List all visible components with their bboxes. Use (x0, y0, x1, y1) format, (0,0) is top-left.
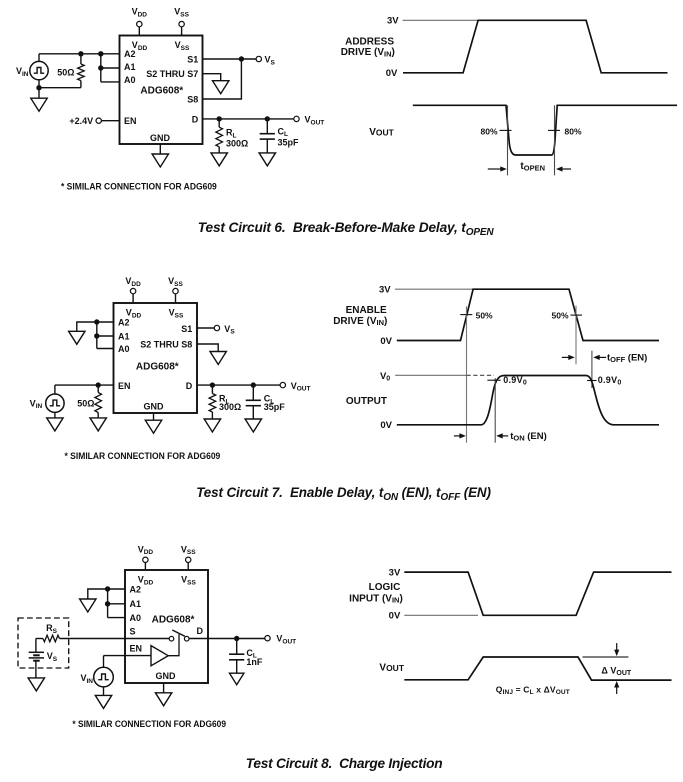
node VOUT label (waveform 8) (379, 662, 404, 673)
node junction bus-A1 (circuit 7) (94, 333, 99, 338)
node junction bus-A2 (circuit 7) (94, 319, 99, 324)
node 50% tick left (waveform 7) (460, 310, 493, 320)
wire 0V reference line (waveform 8) (404, 614, 478, 616)
resistor 50ohm label (circuit 7) (77, 398, 94, 408)
svg-text:* SIMILAR CONNECTION FOR ADG60: * SIMILAR CONNECTION FOR ADG609 (61, 181, 217, 191)
node 0V label (waveform 6) (386, 68, 398, 79)
ground GND pin (circuit 7) (145, 413, 161, 433)
VOUT terminal (circuit 7) (280, 381, 310, 393)
node caption test circuit 7 (196, 485, 491, 503)
wire VOUT waveform with notch (waveform 6) (413, 105, 677, 155)
node junction D-CL (circuit 7) (251, 382, 256, 387)
wire V0 reference line (waveform 7) (395, 374, 494, 376)
svg-text:A2: A2 (124, 49, 136, 59)
node junction bus-A1 (circuit 8) (105, 601, 110, 606)
svg-text:S1: S1 (187, 55, 198, 65)
wire VSS supply stub (circuit 6) (181, 27, 183, 36)
resistor RL label (circuit 6) (226, 128, 248, 149)
svg-text:A0: A0 (124, 75, 136, 85)
wire address bus vertical (circuit 7) (96, 322, 98, 349)
svg-text:50%: 50% (476, 310, 493, 320)
svg-text:80%: 80% (480, 127, 497, 137)
svg-text:tOPEN: tOPEN (520, 161, 545, 173)
node caption test circuit 8 (246, 756, 443, 771)
note similar connection (circuit 6) (61, 181, 217, 191)
wire VIN enable waveform (waveform 7) (397, 289, 659, 340)
wire measure line 0.9V0 left (waveform 7) (494, 378, 496, 443)
node junction D-CL (circuit 6) (265, 116, 270, 121)
svg-text:* SIMILAR CONNECTION FOR ADG60: * SIMILAR CONNECTION FOR ADG609 (65, 451, 221, 461)
svg-text:S2 THRU S8: S2 THRU S8 (140, 340, 192, 350)
svg-text:3V: 3V (389, 568, 401, 579)
svg-text:GND: GND (156, 671, 177, 681)
node 3V label (waveform 8) (389, 568, 401, 579)
VOUT terminal (circuit 6) (294, 115, 324, 127)
wire S1 to VS (circuit 6) (203, 58, 257, 60)
node junction D-RL (circuit 6) (217, 116, 222, 121)
wire 3V reference line (waveform 7) (395, 288, 473, 290)
ground GND pin (circuit 6) (152, 144, 168, 167)
wire VIN address waveform (waveform 6) (403, 20, 668, 73)
svg-text:A0: A0 (130, 613, 142, 623)
wire VDD supply stub (circuit 6) (138, 27, 140, 36)
svg-text:35pF: 35pF (264, 402, 286, 412)
svg-text:OUTPUT: OUTPUT (346, 396, 387, 407)
ground below VIN (circuit 7) (47, 412, 63, 431)
capacitor CL label (circuit 6) (278, 126, 300, 147)
node 0V label (waveform 8) (389, 611, 401, 622)
ground below VIN (circuit 8) (95, 687, 111, 709)
node 80% tick left (waveform 6) (480, 127, 511, 137)
node 80% tick right (waveform 6) (548, 127, 582, 137)
svg-text:35pF: 35pF (278, 137, 300, 147)
wire EN stub (circuit 6) (101, 120, 119, 122)
svg-text:DRIVE (VIN): DRIVE (VIN) (333, 316, 387, 327)
capacitor CL 1nF (circuit 8) (229, 639, 244, 674)
VDD terminal (circuit 8) (138, 544, 154, 562)
node QINJ formula (waveform 8) (496, 685, 570, 696)
svg-text:ADG608*: ADG608* (140, 85, 183, 96)
svg-text:3V: 3V (387, 16, 399, 27)
capacitor CL label (circuit 8) (246, 648, 263, 667)
svg-text:tOFF (EN): tOFF (EN) (607, 353, 647, 365)
wire VSS supply stub (circuit 7) (175, 294, 177, 303)
resistor RL label (circuit 7) (219, 394, 241, 412)
svg-text:50Ω: 50Ω (57, 67, 74, 77)
wire VSS supply stub (circuit 8) (187, 563, 189, 571)
node tOPEN measure arrows (waveform 6) (488, 161, 571, 173)
wire S1 stub (circuit 7) (197, 327, 214, 329)
node tOFF measure arrows (waveform 7) (562, 351, 648, 388)
svg-text:S8: S8 (187, 95, 198, 105)
wire S2-S7 stub (circuit 6) (203, 74, 221, 81)
VSS terminal (circuit 7) (168, 276, 183, 294)
battery VS (circuit 8) (29, 639, 58, 678)
svg-text:ADG608*: ADG608* (136, 362, 179, 373)
node +2.4V label (circuit 6) (69, 116, 93, 126)
svg-text:50%: 50% (551, 310, 568, 320)
svg-text:300Ω: 300Ω (226, 138, 248, 148)
node 0V label output (waveform 7) (380, 420, 392, 431)
wire A2 net with ground bend (circuit 7) (77, 322, 114, 331)
node delta VOUT arrows (waveform 8) (601, 643, 631, 694)
wire A1 pin stub (circuit 8) (108, 603, 125, 605)
ground address (circuit 8) (80, 599, 96, 612)
capacitor CL 35pF (circuit 6) (260, 119, 275, 153)
wire A2 net with ground bend (circuit 8) (88, 589, 125, 599)
VSS terminal (circuit 6) (174, 7, 189, 27)
svg-text:S2 THRU S7: S2 THRU S7 (146, 69, 198, 79)
node junction D-CL (circuit 8) (234, 636, 239, 641)
wire D output net (circuit 6) (203, 118, 294, 120)
op-amp EN driver buffer (circuit 8) (151, 646, 168, 666)
capacitor CL 35pF (circuit 7) (246, 385, 261, 419)
resistor 50ohm (circuit 6) (78, 54, 85, 81)
ground address (circuit 7) (69, 331, 85, 344)
VOUT terminal (circuit 8) (265, 634, 296, 646)
wire right measure line (waveform 6) (554, 105, 556, 175)
node tON measure arrows (waveform 7) (454, 431, 547, 443)
node ADDRESS DRIVE label (waveform 6) (341, 36, 395, 58)
node junction 50ohm top (circuit 6) (78, 51, 83, 56)
ground below RL (circuit 7) (204, 419, 220, 432)
node LOGIC INPUT label (waveform 8) (349, 582, 403, 605)
svg-text:A0: A0 (118, 344, 130, 354)
svg-text:ADDRESS: ADDRESS (345, 36, 394, 47)
node junction bus-A2 (circuit 8) (105, 586, 110, 591)
node OUTPUT label (waveform 7) (346, 396, 387, 407)
op-amp U3 ADG608 IC body (circuit 8) (125, 570, 208, 683)
node junction D-RL (circuit 7) (210, 382, 215, 387)
svg-text:D: D (192, 114, 199, 124)
wire A0 pin stub (circuit 6) (101, 81, 120, 83)
svg-text:ADG608*: ADG608* (152, 614, 195, 625)
svg-text:A1: A1 (130, 599, 142, 609)
node ENABLE DRIVE label (waveform 7) (333, 305, 387, 327)
wire EN net from VIN (circuit 8) (104, 656, 152, 668)
EN terminal (circuit 6) (96, 118, 101, 123)
source VIN pulse generator (circuit 8) (80, 667, 113, 687)
ground below VS (circuit 8) (28, 678, 44, 691)
wire VDD supply stub (circuit 7) (132, 294, 134, 303)
node caption test circuit 6 (198, 220, 495, 238)
svg-text:S1: S1 (181, 324, 192, 334)
wire A0 pin stub (circuit 7) (97, 348, 114, 350)
svg-text:Test Circuit 8. Charge Inject: Test Circuit 8. Charge Injection (246, 756, 443, 771)
switch contacts and lever (circuit 8) (168, 630, 189, 656)
ground S2-S7 (circuit 6) (213, 81, 229, 94)
resistor RS (circuit 8) (36, 623, 60, 642)
wire S8 up to S1 net (circuit 6) (203, 59, 242, 99)
wire VDD supply stub (circuit 8) (144, 563, 146, 571)
svg-text:0V: 0V (386, 68, 398, 79)
wire address bus vertical (circuit 6) (100, 54, 102, 82)
note similar connection (circuit 7) (65, 451, 221, 461)
svg-text:VOUT: VOUT (379, 662, 404, 673)
node junction EN-50ohm (circuit 7) (96, 382, 101, 387)
resistor RL 300ohm (circuit 7) (209, 385, 216, 419)
ground GND pin (circuit 8) (155, 683, 171, 706)
VS terminal (circuit 6) (256, 55, 275, 67)
svg-text:A2: A2 (118, 318, 130, 328)
node junction bus-A1 (circuit 6) (98, 65, 103, 70)
node junction VIN-50ohm-gnd (circuit 6) (36, 85, 41, 90)
svg-text:D: D (197, 626, 204, 636)
wire A2 net from VIN to pin A2 (circuit 6) (39, 53, 120, 55)
svg-text:GND: GND (150, 133, 171, 143)
svg-text:VOUT: VOUT (369, 127, 394, 138)
svg-text:LOGIC: LOGIC (369, 582, 401, 593)
node junction bus-A2 (circuit 6) (98, 51, 103, 56)
svg-text:EN: EN (118, 381, 131, 391)
node V0 label (waveform 7) (380, 371, 390, 383)
svg-text:300Ω: 300Ω (219, 402, 241, 412)
svg-text:EN: EN (124, 116, 137, 126)
ground below RL (circuit 6) (211, 153, 227, 166)
wire D output net (circuit 8) (189, 638, 265, 640)
source VIN pulse generator (circuit 6) (16, 54, 48, 80)
node 0.9V0 tick right (waveform 7) (587, 375, 622, 386)
op-amp U2 ADG608 IC body (circuit 7) (114, 303, 198, 413)
wire measure line 50pct left (waveform 7) (466, 306, 468, 442)
svg-text:3V: 3V (379, 285, 391, 296)
wire OUTPUT waveform (waveform 7) (397, 376, 659, 425)
svg-text:1nF: 1nF (246, 657, 263, 667)
svg-text:+2.4V: +2.4V (69, 116, 93, 126)
wire A1 pin stub (circuit 7) (97, 335, 114, 337)
svg-text:0V: 0V (380, 336, 392, 347)
resistor RL 300ohm (circuit 6) (216, 119, 223, 153)
resistor 50ohm (circuit 7) (95, 385, 102, 418)
node 3V label (waveform 7) (379, 285, 391, 296)
wire A1 pin stub (circuit 6) (101, 67, 120, 69)
svg-text:A1: A1 (118, 332, 130, 342)
VS terminal (circuit 7) (214, 324, 235, 336)
source VIN pulse generator (circuit 7) (30, 394, 64, 412)
wire VIN logic waveform (waveform 8) (404, 572, 671, 615)
ground below CL (circuit 7) (245, 419, 261, 432)
resistor 50ohm label (circuit 6) (57, 67, 74, 77)
op-amp U1 ADG608 IC body (circuit 6) (120, 36, 203, 145)
ground below CL (circuit 6) (259, 153, 275, 166)
wire VOUT waveform (waveform 8) (404, 657, 671, 680)
svg-text:S: S (130, 627, 136, 637)
wire A0 pin stub (circuit 8) (108, 617, 125, 619)
svg-text:* SIMILAR CONNECTION FOR ADG60: * SIMILAR CONNECTION FOR ADG609 (72, 719, 226, 729)
wire measure line 50pct right (waveform 7) (575, 306, 577, 365)
wire EN net from VIN (circuit 7) (55, 385, 114, 394)
wire 3V reference line (waveform 6) (403, 19, 479, 21)
VDD terminal (circuit 6) (132, 7, 148, 27)
ground S2-S8 (circuit 7) (210, 352, 226, 365)
wire delta reference line (waveform 8) (583, 656, 629, 658)
wire S net from RS to switch (circuit 8) (59, 638, 169, 640)
node 0V label (waveform 7) (380, 336, 392, 347)
source box dashed RS VS (circuit 8) (18, 618, 69, 668)
svg-text:A1: A1 (124, 62, 136, 72)
svg-text:EN: EN (130, 644, 143, 654)
svg-text:A2: A2 (130, 585, 142, 595)
node 3V label (waveform 6) (387, 16, 399, 27)
ground below CL (circuit 8) (230, 673, 244, 685)
capacitor CL label (circuit 7) (264, 394, 286, 412)
node 50% tick right (waveform 7) (551, 310, 582, 320)
VSS terminal (circuit 8) (181, 544, 196, 562)
VDD terminal (circuit 7) (125, 276, 141, 294)
svg-text:tON (EN): tON (EN) (510, 431, 547, 443)
svg-text:GND: GND (144, 402, 165, 412)
svg-text:50Ω: 50Ω (77, 398, 94, 408)
svg-text:DRIVE (VIN): DRIVE (VIN) (341, 47, 395, 58)
ground below VIN (circuit 6) (31, 88, 47, 112)
node 0.9V0 tick left (waveform 7) (487, 375, 527, 386)
svg-text:INPUT (VIN): INPUT (VIN) (349, 593, 403, 604)
wire D output net (circuit 7) (197, 384, 280, 386)
svg-text:0V: 0V (380, 420, 392, 431)
wire S2-S8 stub (circuit 7) (197, 344, 218, 352)
wire left measure line (waveform 6) (507, 105, 509, 175)
svg-text:D: D (186, 381, 193, 391)
node junction S1-S8 (circuit 6) (239, 56, 244, 61)
svg-text:80%: 80% (565, 127, 582, 137)
wire address bus vertical (circuit 8) (107, 589, 109, 618)
wire 50ohm bottom to VIN bottom (circuit 6) (39, 80, 81, 88)
ground below 50ohm (circuit 7) (90, 418, 106, 431)
svg-text:0V: 0V (389, 611, 401, 622)
node VOUT label (waveform 6) (369, 127, 394, 138)
note similar connection (circuit 8) (72, 719, 226, 729)
svg-text:ENABLE: ENABLE (346, 305, 387, 316)
